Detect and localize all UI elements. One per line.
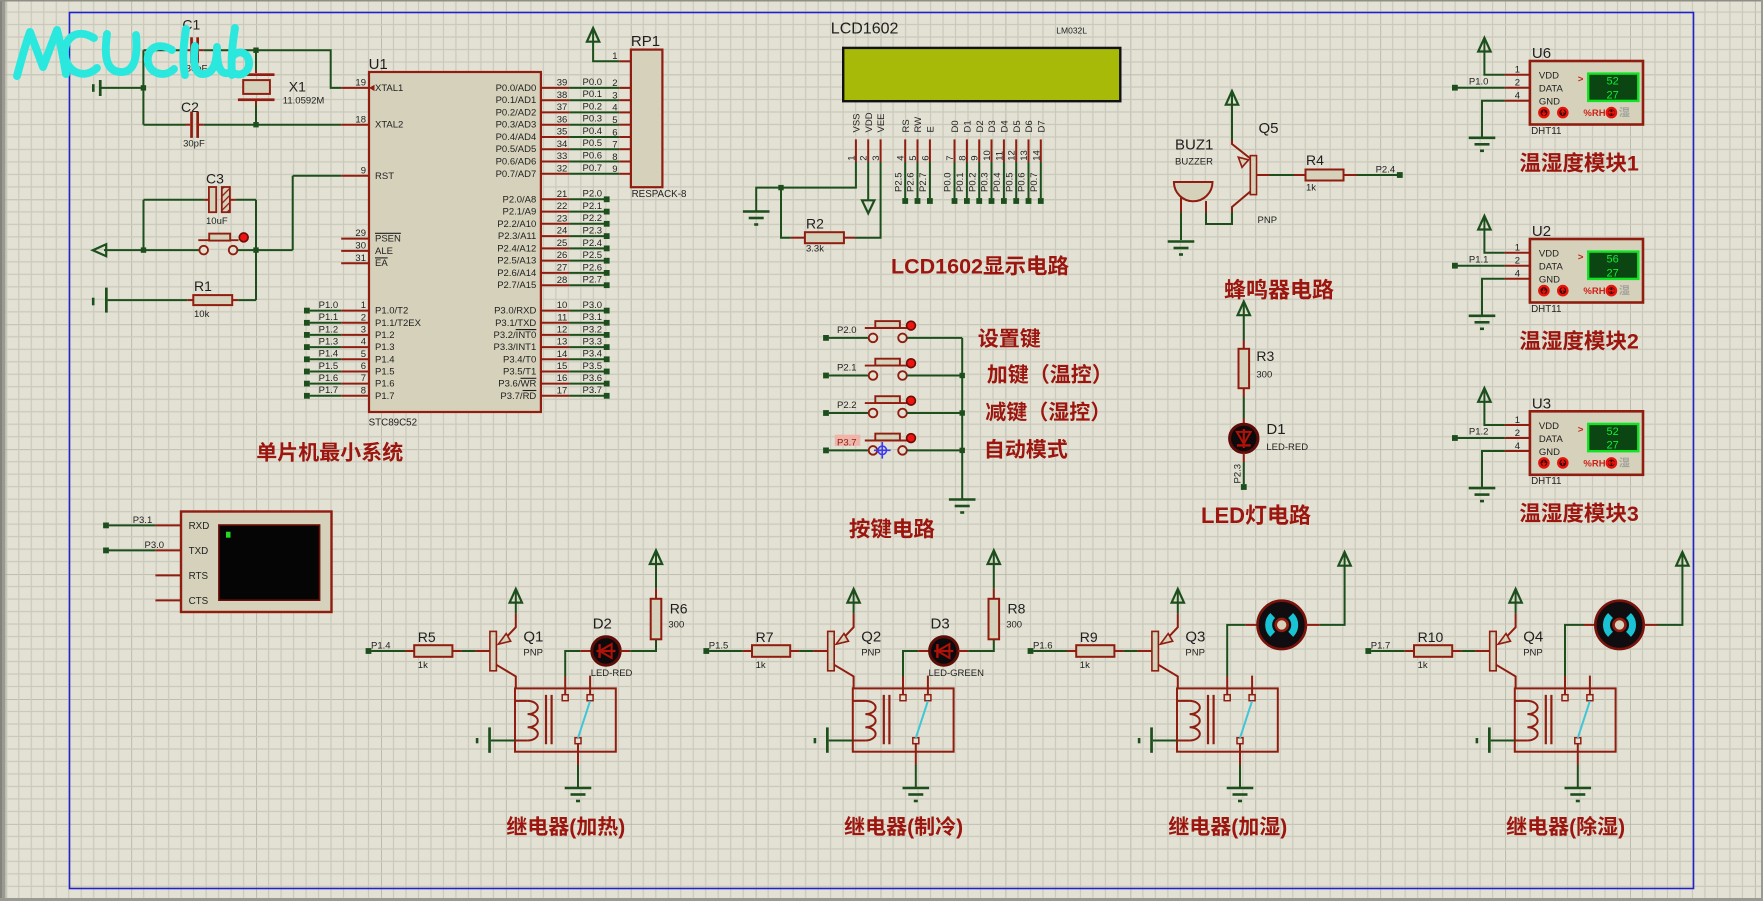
resistor R1: [187, 278, 238, 320]
svg-text:P3.7: P3.7: [837, 437, 857, 448]
U6 pin 2 DATA: [1505, 87, 1530, 89]
wire LCD D0 to net P0.0: [954, 162, 956, 198]
svg-text:(: (: [907, 816, 914, 839]
svg-text:39: 39: [557, 78, 568, 89]
svg-text:1k: 1k: [1080, 660, 1090, 671]
svg-text:2: 2: [361, 312, 366, 323]
terminal P2.3: [604, 233, 610, 239]
ground relay: [1227, 787, 1254, 790]
U1 pin 33 P0.6/AD6 stub: [541, 161, 570, 163]
svg-text:VEE: VEE: [876, 113, 887, 132]
svg-text:30: 30: [355, 241, 366, 252]
svg-text:RST: RST: [375, 171, 394, 182]
wire D3 to R8: [968, 639, 994, 651]
relay coil box 继电器(除湿): [1515, 688, 1616, 751]
title 继电器(制冷) (cjk): [844, 816, 864, 835]
terminal P0.4: [1001, 198, 1007, 204]
node junction VSS rail: [778, 185, 783, 190]
key label (cjk): [979, 328, 999, 347]
resistor R6: [651, 589, 688, 640]
wire buzzer right to Q5 collector: [1206, 212, 1232, 224]
svg-text:RS: RS: [901, 119, 912, 132]
terminal P0.6: [1026, 198, 1032, 204]
wire RP1 pin1 to power: [593, 42, 619, 62]
resistor R4: [1294, 152, 1357, 194]
capacitor C1: [182, 17, 207, 75]
svg-text:33: 33: [557, 151, 568, 162]
wire C1 row: [143, 49, 185, 51]
svg-text:1: 1: [1515, 65, 1520, 76]
svg-text:P1.3: P1.3: [375, 342, 395, 353]
svg-text:PNP: PNP: [523, 648, 543, 659]
svg-text:P0.4/AD4: P0.4/AD4: [496, 132, 537, 143]
svg-text:P2.4/A12: P2.4/A12: [497, 243, 536, 254]
resistor R7: [743, 629, 800, 671]
wire P1.1 net: [310, 322, 342, 324]
power arrow Q3: [1172, 589, 1184, 603]
wire P0.2 to RP1: [569, 111, 619, 113]
wire P2.2 to key: [829, 412, 869, 414]
svg-text:37: 37: [557, 102, 568, 113]
svg-text:P0.3/AD3: P0.3/AD3: [496, 120, 537, 131]
svg-text:PSEN: PSEN: [375, 234, 401, 245]
svg-text:2: 2: [1515, 256, 1520, 267]
svg-text:U3: U3: [1532, 395, 1551, 412]
node junction C2/X1: [253, 122, 258, 127]
U1 pin 12 P3.2/INT0 stub: [541, 334, 570, 336]
U2 pin 4 GND: [1505, 278, 1530, 280]
terminal P0.2: [976, 198, 982, 204]
power arrow RP1: [587, 28, 599, 42]
svg-text:10uF: 10uF: [206, 216, 228, 227]
svg-text:U1: U1: [369, 56, 388, 73]
wire R7 to Q2 base: [799, 650, 813, 652]
ground U2: [1469, 314, 1496, 317]
wire P3.7 to key: [829, 449, 869, 451]
transistor Q3 (PNP): [1138, 614, 1206, 689]
relay coil box 继电器(加湿): [1177, 688, 1278, 751]
svg-text:DHT11: DHT11: [1531, 126, 1561, 137]
svg-text:R8: R8: [1008, 601, 1026, 617]
wire motor to power: [1644, 624, 1658, 626]
svg-text:3: 3: [612, 91, 617, 102]
U1 pin 21 P2.0/A8 stub: [541, 198, 570, 200]
svg-text:P0.3: P0.3: [583, 114, 603, 125]
svg-text:P1.0: P1.0: [319, 300, 339, 311]
svg-text:R9: R9: [1080, 629, 1098, 645]
svg-text:D6: D6: [1024, 120, 1035, 132]
resistor R5: [405, 629, 462, 671]
node junction reset-right: [253, 247, 258, 252]
svg-text:VDD: VDD: [1539, 421, 1559, 432]
svg-text:9: 9: [970, 156, 981, 161]
wire relay common to motor: [1565, 625, 1584, 676]
svg-text:RXD: RXD: [189, 521, 210, 532]
wire relay bottom contact to ground: [1239, 744, 1241, 765]
svg-text:14: 14: [557, 349, 568, 360]
wire key 3 to bus: [907, 412, 962, 414]
wire LCD D1 to net P0.1: [966, 162, 968, 198]
svg-text:P1.1: P1.1: [319, 312, 339, 323]
RP1 pin 2 stub: [619, 87, 631, 89]
svg-text:PNP: PNP: [861, 648, 881, 659]
svg-text:P3.5: P3.5: [583, 361, 603, 372]
terminal P2.1: [604, 209, 610, 215]
svg-text:P1.5: P1.5: [709, 640, 729, 651]
wire C3 row: [144, 199, 204, 201]
U1 XTAL1 pin marker: [369, 85, 375, 91]
svg-text:4: 4: [1515, 91, 1520, 102]
terminal P2.2 (key 3): [823, 410, 829, 416]
push button key 2: [865, 359, 916, 380]
svg-text:P3.0/RXD: P3.0/RXD: [494, 306, 536, 317]
wire P1.7 net: [310, 395, 342, 397]
wire P1.5 net: [310, 371, 342, 373]
wire U2 VDD to power: [1484, 230, 1505, 253]
wire R5 to Q1 base: [462, 650, 476, 652]
svg-text:1k: 1k: [1418, 660, 1428, 671]
svg-text:R5: R5: [418, 629, 436, 645]
wire VEE down to R2: [855, 162, 881, 238]
svg-text:P2.0: P2.0: [583, 189, 603, 200]
svg-text:300: 300: [1256, 370, 1272, 381]
push button (reset): [144, 233, 257, 254]
terminal P1.6: [304, 381, 310, 387]
wire Q5 base to R4: [1270, 174, 1295, 176]
wire R10 to Q4 base: [1461, 650, 1475, 652]
terminal P1.5: [304, 369, 310, 375]
svg-text:Q2: Q2: [861, 629, 881, 646]
serial pin RTS: [155, 574, 181, 576]
wire P3.5 net: [569, 371, 604, 373]
svg-text:5: 5: [612, 115, 617, 126]
wire U6 DATA to P1.0: [1458, 87, 1505, 89]
key label (cjk): [987, 364, 1006, 383]
svg-text:%RH: %RH: [1583, 108, 1605, 119]
svg-text:P1.2: P1.2: [375, 330, 395, 341]
LED D3 (LED-GREEN): [918, 616, 984, 680]
relay contacts 继电器(制冷): [900, 695, 931, 744]
relay blade (cyan): [578, 701, 590, 738]
terminal P2.6: [604, 270, 610, 276]
svg-text:P1.2: P1.2: [1469, 427, 1489, 438]
power arrow U6: [1478, 38, 1490, 52]
wire P3.2 net: [569, 334, 604, 336]
svg-text:52: 52: [1606, 76, 1618, 88]
svg-text:P0.1: P0.1: [955, 172, 966, 192]
terminal P0.5: [1013, 198, 1019, 204]
svg-text:P1.6: P1.6: [375, 379, 395, 390]
U3 pin 4 GND: [1505, 450, 1530, 452]
svg-text:P3.3/INT1: P3.3/INT1: [494, 342, 537, 353]
wire LCD D6 to net P0.6: [1028, 162, 1030, 198]
LED D2 (LED-RED): [580, 616, 632, 680]
wire LCD RW to net P2.6: [917, 162, 919, 198]
U1 pin 1 P1.0/T2 stub: [341, 310, 369, 312]
wire LCD D4 to net P0.4: [1003, 162, 1005, 198]
U6 display: [1578, 74, 1638, 102]
svg-text:P3.2: P3.2: [583, 324, 603, 335]
svg-text:4: 4: [896, 156, 907, 161]
title 继电器(除湿) (cjk): [1506, 816, 1526, 835]
svg-text:12: 12: [557, 325, 568, 336]
svg-text:26: 26: [557, 250, 568, 261]
serial pin TXD: [155, 549, 181, 551]
U6 grey unit label (cjk): [1619, 107, 1629, 117]
terminal P2.5: [902, 198, 908, 204]
ground cell relay coil: [1476, 727, 1515, 752]
svg-text:): ): [1280, 816, 1287, 839]
LED D1 (LED-RED): [1230, 418, 1309, 462]
svg-text:P0.3: P0.3: [980, 172, 991, 192]
svg-text:P1.5: P1.5: [319, 361, 339, 372]
svg-text:4: 4: [1515, 441, 1520, 452]
terminal P0.7: [1038, 198, 1044, 204]
svg-text:P1.6: P1.6: [1033, 640, 1053, 651]
svg-text:P2.0/A8: P2.0/A8: [503, 194, 537, 205]
serial pin RXD: [155, 524, 181, 526]
svg-text:>: >: [1578, 252, 1584, 263]
svg-text:3: 3: [1627, 502, 1639, 526]
U1 pin 27 P2.6/A14 stub: [541, 272, 570, 274]
title 温湿度模块2 (cjk): [1520, 330, 1540, 350]
svg-text:Q5: Q5: [1259, 120, 1279, 137]
RP1 pin 5 stub: [619, 124, 631, 126]
svg-text:VDD: VDD: [1539, 71, 1559, 82]
U1 pin 9 RST stub: [341, 175, 369, 177]
svg-text:P0.2: P0.2: [967, 172, 978, 192]
svg-text:P2.2: P2.2: [837, 400, 857, 411]
svg-text:P0.6/AD6: P0.6/AD6: [496, 157, 537, 168]
terminal P2.7: [927, 198, 933, 204]
U1 pin 19 XTAL1 stub: [341, 87, 369, 89]
U1 pin 8 P1.7 stub: [341, 395, 369, 397]
svg-text:P0.6: P0.6: [583, 151, 603, 162]
wire power to R3: [1243, 315, 1245, 340]
svg-text:%RH: %RH: [1583, 459, 1605, 470]
svg-text:P3.6: P3.6: [583, 373, 603, 384]
svg-text:18: 18: [355, 114, 366, 125]
crystal X1: [238, 52, 325, 125]
svg-text:P3.4/T0: P3.4/T0: [503, 354, 536, 365]
wire P2.3 net: [569, 235, 604, 237]
wire left rail vertical: [142, 50, 144, 125]
terminal P1.7: [1365, 648, 1371, 654]
svg-text:>: >: [1578, 74, 1584, 85]
U1 pin 36 P0.3/AD3 stub: [541, 124, 570, 126]
ground relay: [565, 787, 592, 790]
svg-text:P0.0: P0.0: [583, 77, 603, 88]
svg-text:8: 8: [361, 385, 366, 396]
terminal P3.0: [604, 308, 610, 314]
node junction reset-left: [141, 247, 146, 252]
wire P2.6 net: [569, 272, 604, 274]
wire P1.7 to R10: [1371, 650, 1405, 652]
svg-text:P1.3: P1.3: [319, 337, 339, 348]
svg-text:P3.5/T1: P3.5/T1: [503, 367, 536, 378]
terminal P1.4: [366, 648, 372, 654]
svg-text:1: 1: [1627, 152, 1639, 176]
U1 pin 11 P3.1/TXD stub: [541, 322, 570, 324]
svg-text:11: 11: [994, 151, 1005, 161]
svg-text:10: 10: [982, 150, 993, 161]
svg-text:P2.1: P2.1: [837, 363, 857, 374]
serial pin CTS: [155, 599, 181, 601]
svg-text:8: 8: [957, 156, 968, 161]
svg-text:P2.3: P2.3: [1233, 464, 1244, 484]
U1 pin 39 P0.0/AD0 stub: [541, 87, 570, 89]
svg-text:P1.4: P1.4: [375, 354, 395, 365]
svg-text:P1.5: P1.5: [375, 367, 395, 378]
ground key bus: [949, 498, 976, 501]
terminal P3.7 (key 4): [823, 448, 829, 454]
U6 knobs: [1539, 108, 1616, 117]
svg-text:P0.4: P0.4: [992, 172, 1003, 192]
wire D2 to R6: [630, 639, 656, 651]
relay blade (cyan): [1578, 701, 1590, 738]
U3 pin 2 DATA: [1505, 437, 1530, 439]
U2 pin 1 VDD: [1505, 252, 1530, 254]
terminal P3.2: [604, 332, 610, 338]
svg-text:RTS: RTS: [189, 571, 209, 582]
title 温湿度模块1 (cjk): [1520, 152, 1540, 172]
U1 pin 28 P2.7/A15 stub: [541, 284, 570, 286]
U1 pin 15 P3.5/T1 stub: [541, 371, 570, 373]
U1 pin 3 P1.2 stub: [341, 334, 369, 336]
svg-text:P2.1/A9: P2.1/A9: [503, 207, 537, 218]
svg-text:DATA: DATA: [1539, 434, 1564, 445]
svg-text:8: 8: [612, 152, 617, 163]
svg-text:10: 10: [557, 300, 568, 311]
svg-text:P2.0: P2.0: [837, 325, 857, 336]
wire P2.2 net: [569, 223, 604, 225]
svg-text:2: 2: [612, 78, 617, 89]
relay contacts 继电器(除湿): [1562, 695, 1593, 744]
svg-text:LED: LED: [1201, 503, 1245, 528]
svg-text:BUZZER: BUZZER: [1175, 157, 1213, 168]
svg-text:): ): [956, 816, 963, 839]
svg-text:9: 9: [612, 164, 617, 175]
svg-text:7: 7: [612, 140, 617, 151]
wire P2.5 net: [569, 260, 604, 262]
svg-text:1: 1: [1515, 415, 1520, 426]
wire P2.7 net: [569, 284, 604, 286]
svg-text:D3: D3: [931, 616, 950, 633]
svg-text:2: 2: [1515, 428, 1520, 439]
svg-text:56: 56: [1606, 254, 1618, 266]
wire P0.4 to RP1: [569, 136, 619, 138]
svg-text:P0.5/AD5: P0.5/AD5: [496, 144, 537, 155]
svg-text:27: 27: [557, 263, 568, 274]
svg-text:P3.7/RD: P3.7/RD: [500, 391, 536, 402]
svg-text:5: 5: [361, 349, 366, 360]
node junction key bus 4: [960, 448, 965, 453]
wire P0.6 to RP1: [569, 161, 619, 163]
wire D1 to P2.3: [1243, 462, 1245, 484]
svg-text:300: 300: [668, 619, 684, 630]
terminal P1.0: [1452, 85, 1458, 91]
title key circuit (cjk): [849, 518, 869, 538]
relay NO stub: [927, 676, 929, 695]
relay blade (cyan): [1240, 701, 1252, 738]
svg-text:25: 25: [557, 238, 568, 249]
svg-text:GND: GND: [1539, 447, 1560, 458]
transistor Q5 (PNP): [1232, 120, 1279, 226]
svg-text:P2.5/A13: P2.5/A13: [497, 256, 536, 267]
svg-text:P3.6/WR: P3.6/WR: [498, 379, 536, 390]
svg-text:D4: D4: [1000, 120, 1011, 132]
svg-text:P0.2/AD2: P0.2/AD2: [496, 107, 537, 118]
svg-text:29: 29: [355, 228, 366, 239]
svg-text:P2.6/A14: P2.6/A14: [497, 268, 536, 279]
relay common stub: [1564, 676, 1566, 695]
svg-text:1k: 1k: [1306, 183, 1316, 194]
svg-text:13: 13: [1019, 150, 1030, 161]
svg-text:XTAL1: XTAL1: [375, 83, 403, 94]
wire RST to chip: [256, 176, 341, 250]
ground buzzer: [1168, 240, 1195, 243]
push button key 3: [865, 396, 916, 417]
power arrow Q2: [847, 589, 859, 603]
svg-text:U2: U2: [1532, 223, 1551, 240]
svg-text:P1.7: P1.7: [1371, 640, 1391, 651]
svg-text:P0.7: P0.7: [1029, 172, 1040, 192]
U1 pin 10 P3.0/RXD stub: [541, 310, 570, 312]
U2 display: [1578, 252, 1638, 280]
wire LCD D7 to net P0.7: [1040, 162, 1042, 198]
relay NO stub: [589, 676, 591, 695]
wire LCD D2 to net P0.2: [978, 162, 980, 198]
transistor Q4 (PNP): [1475, 614, 1543, 689]
svg-text:10k: 10k: [194, 309, 210, 320]
resistor R10: [1405, 629, 1462, 671]
svg-text:P3.1/TXD: P3.1/TXD: [495, 318, 536, 329]
ground cell relay coil: [814, 727, 853, 752]
MCUclub logo: [17, 28, 249, 76]
node junction left rail / ground: [141, 85, 146, 90]
ground relay: [1565, 787, 1592, 790]
svg-text:Q1: Q1: [523, 629, 543, 646]
input arrow terminal (reset net): [93, 244, 106, 256]
wire P2.0 net: [569, 198, 604, 200]
svg-text:13: 13: [557, 337, 568, 348]
svg-text:4: 4: [612, 103, 617, 114]
wire P0.1 to RP1: [569, 99, 619, 101]
ground cell near C1: [92, 80, 143, 96]
wire U6 VDD to power: [1484, 52, 1505, 75]
terminal P3.0: [103, 548, 109, 554]
svg-text:3: 3: [871, 156, 882, 161]
svg-text:6: 6: [612, 127, 617, 138]
wire P1.3 net: [310, 346, 342, 348]
svg-text:EA: EA: [375, 258, 388, 269]
terminal P2.2: [604, 221, 610, 227]
wire to LCD ground: [756, 188, 781, 211]
window edge right strip: [1761, 0, 1763, 901]
svg-text:P0.7: P0.7: [583, 163, 603, 174]
svg-text:(: (: [1569, 816, 1576, 839]
wire P0.0 to RP1: [569, 87, 619, 89]
wire P3.0 net: [569, 310, 604, 312]
RP1 pin 3 stub: [619, 99, 631, 101]
wire P0.7 to RP1: [569, 173, 619, 175]
svg-text:3: 3: [361, 325, 366, 336]
node junction key bus 3: [960, 410, 965, 415]
svg-text:15: 15: [557, 361, 568, 372]
U1 pin 37 P0.2/AD2 stub: [541, 111, 570, 113]
svg-text:P1.0/T2: P1.0/T2: [375, 306, 408, 317]
power arrow R6: [650, 550, 662, 564]
